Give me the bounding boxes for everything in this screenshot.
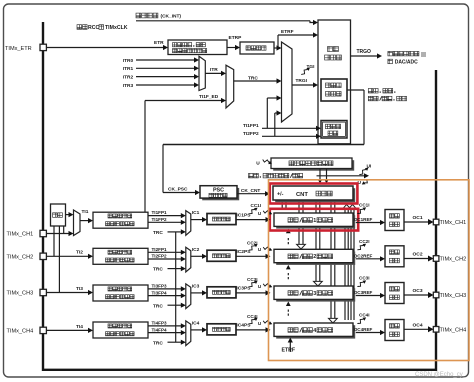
svg-text:TIMx_CH3: TIMx_CH3 <box>440 293 467 299</box>
svg-text:TI1F_ED: TI1F_ED <box>199 94 219 100</box>
svg-text:U: U <box>258 247 262 252</box>
wire TRGO <box>351 55 379 57</box>
svg-text:TI3FP4: TI3FP4 <box>152 290 168 295</box>
wire TRC row 4 <box>168 341 184 343</box>
svg-text:ITR0: ITR0 <box>123 58 134 64</box>
port TIMx_CH3 output <box>433 292 439 298</box>
mux TRGI select <box>282 42 293 122</box>
svg-text:IC1: IC1 <box>192 210 200 216</box>
label internal clock CK_INT <box>136 13 141 18</box>
svg-text:TI2: TI2 <box>76 250 83 256</box>
svg-text:CC1I: CC1I <box>359 203 369 208</box>
mux IC2 select <box>186 247 191 272</box>
svg-text:1: 1 <box>313 218 316 224</box>
wire TI1F_ED <box>144 101 146 214</box>
wire TI1FP2 <box>148 221 183 223</box>
svg-text:CSDN @Echo_cy_: CSDN @Echo_cy_ <box>415 372 467 378</box>
block output control 1 <box>385 210 404 231</box>
svg-text:TRC: TRC <box>153 267 163 273</box>
svg-text:CC4I: CC4I <box>359 313 369 318</box>
svg-text:TRGI: TRGI <box>296 78 308 84</box>
wire TI1 channel input <box>46 233 71 235</box>
svg-text:TIMx_CH2: TIMx_CH2 <box>7 255 34 261</box>
svg-text:OC4: OC4 <box>413 323 423 329</box>
register capture/compare 2 <box>276 252 355 265</box>
svg-text:ETR: ETR <box>154 40 164 46</box>
wire TRC distribution <box>175 232 177 342</box>
svg-text:ITR3: ITR3 <box>123 83 134 89</box>
wire TI3FP3 <box>148 288 183 290</box>
svg-text:TI1: TI1 <box>82 209 89 215</box>
svg-text:TIMxCLK: TIMxCLK <box>105 25 128 31</box>
block input filter edge detector 4 <box>93 322 148 338</box>
wire TI2 <box>46 255 90 257</box>
register capture/compare 4 <box>276 325 355 338</box>
svg-text:OC1REF: OC1REF <box>354 217 373 222</box>
orange highlight region <box>269 180 470 361</box>
svg-text:TI2FP2: TI2FP2 <box>152 254 168 259</box>
wire TI4 <box>46 329 90 331</box>
svg-text:TI4: TI4 <box>76 324 83 330</box>
wire TI2FP2 <box>148 258 183 260</box>
compare data paths <box>281 202 283 209</box>
wire slave feedback <box>347 89 364 91</box>
wire OC3 <box>404 294 429 296</box>
wire OC2 <box>404 258 429 260</box>
block trigger controller <box>318 20 351 144</box>
block input filter ETR <box>240 42 274 54</box>
wire reload to counter <box>319 169 321 181</box>
block output control 3 <box>385 283 404 304</box>
svg-text:TI4FP3: TI4FP3 <box>152 320 168 325</box>
mux ITR select <box>199 56 205 90</box>
svg-text:ITR1: ITR1 <box>123 66 134 72</box>
svg-text:OC4REF: OC4REF <box>354 327 373 332</box>
svg-text:IC2: IC2 <box>192 247 200 253</box>
svg-text:OC3REF: OC3REF <box>354 290 373 295</box>
svg-text:OC3: OC3 <box>413 288 423 294</box>
mux IC1 select <box>186 211 191 236</box>
wire ETR <box>46 47 165 49</box>
block prescaler 1 <box>207 214 236 225</box>
block slave mode controller <box>321 79 347 101</box>
svg-text:4: 4 <box>313 328 316 334</box>
svg-text:ITR: ITR <box>210 67 218 73</box>
wire TI4FP3 <box>148 325 183 327</box>
svg-text:TI4FP4: TI4FP4 <box>152 327 168 332</box>
svg-text:CC2I: CC2I <box>359 239 369 244</box>
svg-text:TIMx_CH4: TIMx_CH4 <box>440 327 467 333</box>
wire CK_INT <box>136 20 310 22</box>
svg-text:CNT: CNT <box>296 192 308 198</box>
svg-text:TIMx_CH4: TIMx_CH4 <box>7 329 34 335</box>
wire TRC row 3 <box>168 304 184 306</box>
svg-text:U: U <box>258 284 262 289</box>
wire OC2REF <box>356 258 381 260</box>
block input filter edge detector 2 <box>93 248 148 264</box>
block XOR <box>51 204 66 226</box>
wire TRC row 2 <box>168 268 184 270</box>
svg-text:3: 3 <box>313 291 316 297</box>
svg-text:PSC: PSC <box>213 187 224 193</box>
svg-text:TIMx_CH3: TIMx_CH3 <box>7 291 34 297</box>
wire OC3REF <box>356 295 381 297</box>
svg-text:ETRF: ETRF <box>281 29 294 35</box>
block prescaler 4 <box>207 324 236 335</box>
label reset enable up/down count <box>368 89 373 94</box>
svg-text:TI3FP3: TI3FP3 <box>152 283 168 288</box>
port TIMx_CH2 output <box>433 256 439 262</box>
svg-text:TRC: TRC <box>153 303 163 309</box>
svg-text:U: U <box>258 321 262 326</box>
mux TI1 select <box>74 210 81 236</box>
block polarity selection edge detector prescaler <box>168 40 227 55</box>
svg-text:2: 2 <box>313 254 316 260</box>
svg-text:TIMx_CH1: TIMx_CH1 <box>440 220 467 226</box>
mux TRC select <box>226 65 234 108</box>
svg-text:OC1: OC1 <box>413 215 423 221</box>
block input filter edge detector 1 <box>93 212 148 228</box>
wire XOR to mux <box>66 214 72 216</box>
svg-text:CK_PSC: CK_PSC <box>168 187 188 193</box>
svg-text:CK_CNT: CK_CNT <box>241 188 261 194</box>
mux IC4 select <box>186 321 191 346</box>
svg-text:TIMx_ETR: TIMx_ETR <box>5 46 32 52</box>
wire ETRF to capture 4 <box>289 341 291 352</box>
svg-text:TIMx_CH1: TIMx_CH1 <box>7 232 34 238</box>
block encoder interface <box>321 121 347 139</box>
svg-text:TGI: TGI <box>307 64 316 70</box>
watermark fragment <box>421 52 426 57</box>
red highlight CNT counter <box>270 184 358 204</box>
wire TI3FP4 <box>148 295 183 297</box>
svg-text:(CK_INT): (CK_INT) <box>161 14 182 20</box>
capture data paths <box>344 208 346 320</box>
svg-text:IC4: IC4 <box>192 321 200 327</box>
svg-text:TRC: TRC <box>248 75 258 81</box>
block output control 4 <box>385 320 404 341</box>
wire TRC <box>234 80 278 82</box>
timer boundary box <box>43 22 436 370</box>
block CNT counter <box>275 188 355 202</box>
svg-text:U: U <box>258 211 262 216</box>
svg-text:TIMx_CH2: TIMx_CH2 <box>440 257 467 263</box>
wire ETRP <box>227 47 237 49</box>
wire TI2FP1 <box>148 251 183 253</box>
svg-text:TRC: TRC <box>153 230 163 236</box>
wire OC4REF <box>356 332 381 334</box>
wire TI4FP4 <box>148 332 183 334</box>
register capture/compare 3 <box>276 288 355 301</box>
svg-text:DAC/ADC: DAC/ADC <box>395 59 418 65</box>
svg-text:OC2: OC2 <box>413 252 423 258</box>
svg-text:RCC: RCC <box>88 25 99 31</box>
port TIMx_CH1 output <box>433 219 439 225</box>
block output control 2 <box>385 246 404 267</box>
svg-text:TI2FP1: TI2FP1 <box>152 247 168 252</box>
svg-text:U: U <box>256 160 260 166</box>
svg-text:TRC: TRC <box>153 340 163 346</box>
label stop clear up/down <box>247 171 319 180</box>
wires ITR0-ITR3 <box>136 59 196 61</box>
red highlight capture compare 1 <box>270 209 358 231</box>
svg-text:OC2REF: OC2REF <box>354 254 373 259</box>
svg-text:ITR2: ITR2 <box>123 74 134 80</box>
block input filter edge detector 3 <box>93 285 148 301</box>
port TIMx_CH4 output <box>433 327 439 333</box>
wires XOR inputs <box>53 226 55 256</box>
wire OC1 <box>404 221 429 223</box>
svg-text:TI1FP2: TI1FP2 <box>152 217 168 222</box>
block prescaler 2 <box>207 250 236 261</box>
flash TGI <box>301 70 307 75</box>
mux IC3 select <box>186 284 191 309</box>
svg-text:TRGO: TRGO <box>357 49 372 55</box>
wire TI3 <box>46 292 90 294</box>
dashed event path <box>287 238 289 245</box>
wire TRC row 1 <box>168 231 184 233</box>
wire OC4 <box>404 328 429 330</box>
svg-text:TI3: TI3 <box>76 286 83 292</box>
svg-text:IC3: IC3 <box>192 284 200 290</box>
wire OC1REF <box>356 222 381 224</box>
label from RCC TIMxCLK <box>77 25 82 30</box>
svg-text:CC3I: CC3I <box>359 276 369 281</box>
wire ETRF <box>274 47 279 49</box>
svg-text:+/-: +/- <box>277 192 284 198</box>
label to other timers to DAC/ADC <box>388 51 393 56</box>
register capture/compare 1 <box>276 215 355 228</box>
wire TI1FP1 <box>148 215 183 217</box>
block PSC prescaler <box>202 188 239 200</box>
svg-text:ETRP: ETRP <box>229 35 243 41</box>
svg-text:CC1I: CC1I <box>251 203 261 208</box>
block auto-reload register <box>273 160 354 171</box>
svg-text:TI2FP2: TI2FP2 <box>243 131 259 137</box>
svg-text:TI1FP1: TI1FP1 <box>152 210 168 215</box>
svg-text:ETRF: ETRF <box>282 347 296 353</box>
svg-text:TI1FP1: TI1FP1 <box>243 123 259 129</box>
svg-text:IC1PS: IC1PS <box>236 212 251 218</box>
block prescaler 3 <box>207 287 236 298</box>
wire stop clear <box>317 175 366 177</box>
